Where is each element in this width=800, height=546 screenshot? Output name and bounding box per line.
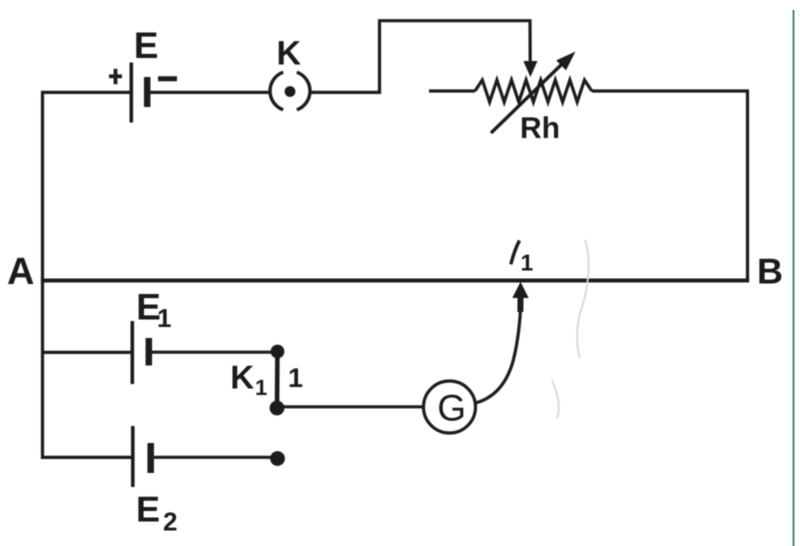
label G <box>439 395 463 421</box>
cell E1 <box>132 321 149 384</box>
rheostat diagonal variable arrow <box>491 52 576 134</box>
wire: key K up over to rheostat wiper drop <box>310 21 530 93</box>
wire: rheostat right lead and right vertical down to node B <box>592 91 748 283</box>
wire: key K1 common to galvanometer G <box>277 405 424 408</box>
label B <box>759 259 781 284</box>
potentiometer wire A-B <box>41 279 749 283</box>
battery E <box>131 63 147 123</box>
node: common contact of key K1 <box>270 401 285 416</box>
jockey arrow onto wire AB at l1 <box>512 282 528 312</box>
wire: battery E lead, left vertical bus A, and E2 branch lead <box>43 92 132 457</box>
wire: E1 branch from left vertical <box>42 351 131 354</box>
node: open contact (E2 side) of key K1 <box>270 451 285 466</box>
wire: dead-end stub left of rheostat <box>429 89 475 92</box>
galvanometer G <box>424 381 476 433</box>
label Rh <box>522 116 558 138</box>
label + (battery E positive) <box>109 69 122 84</box>
label K <box>279 41 301 64</box>
rheostat Rh zigzag element <box>475 80 592 102</box>
label l1 (balance length) <box>511 241 533 271</box>
wire: battery E to key K <box>151 91 271 94</box>
wire: galvanometer to jockey curve <box>476 312 521 403</box>
two-way key K1 blade <box>275 352 280 409</box>
node: contact 1 of two-way key K1 <box>271 345 285 359</box>
label E2 <box>138 497 176 531</box>
label K1 <box>233 366 267 395</box>
wire: cell E1 to key contact 1 <box>152 351 272 354</box>
label 1 (key position) <box>290 368 303 387</box>
wire: cell E2 to open contact of key K1 <box>154 456 271 459</box>
label A <box>8 258 33 284</box>
scan smudge marks <box>552 240 589 418</box>
label E <box>136 33 157 58</box>
key K (plug key: broken circle with dot) <box>270 72 310 110</box>
label - (battery E negative) <box>158 76 177 81</box>
label E1 <box>139 294 171 327</box>
rheostat wiper arrowhead <box>523 61 537 77</box>
cell E2 <box>133 426 151 487</box>
